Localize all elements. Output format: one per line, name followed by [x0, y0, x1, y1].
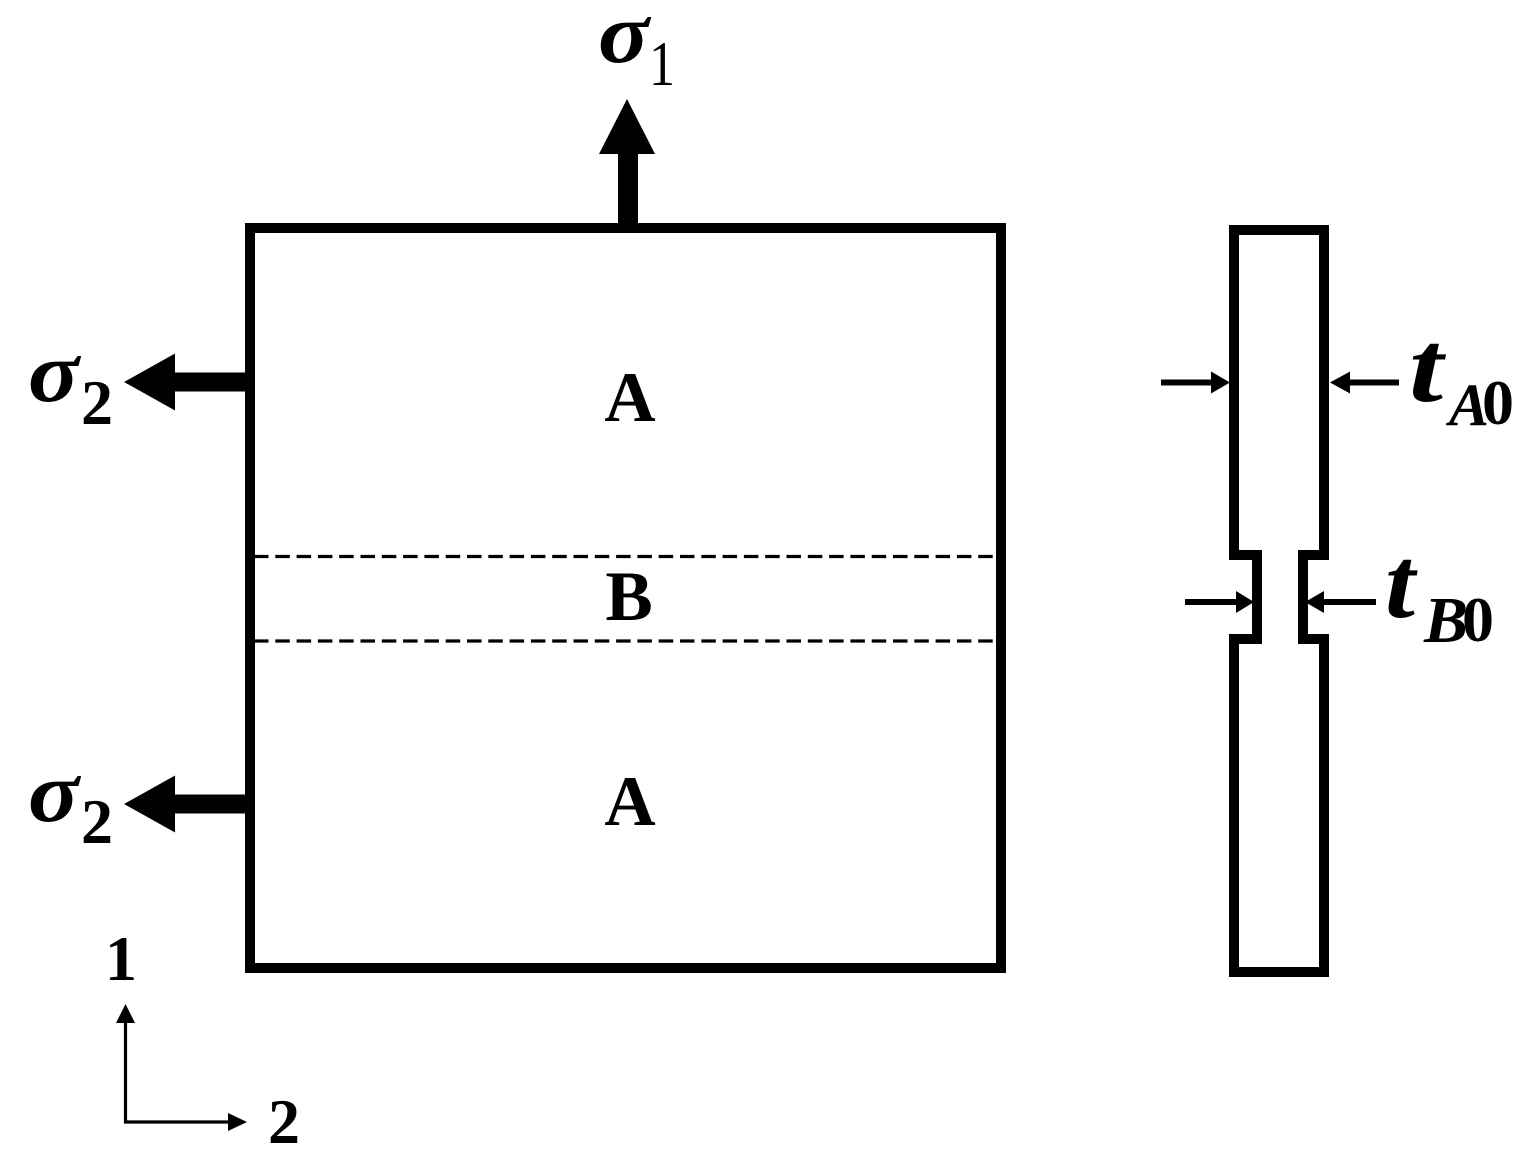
dashed interface line lower — [254, 639, 1001, 642]
svg-text:t: t — [1409, 311, 1446, 424]
svg-text:0: 0 — [1482, 367, 1514, 438]
laminate square outline — [250, 228, 1001, 968]
svg-text:A: A — [604, 359, 655, 437]
svg-text:2: 2 — [268, 1086, 300, 1157]
svg-text:t: t — [1385, 527, 1418, 640]
sigma2 label upper — [28, 324, 113, 438]
tA0 arrow left — [1161, 372, 1230, 394]
sigma2 label lower — [28, 744, 113, 857]
tB0 arrow right — [1305, 591, 1376, 613]
tB0 label — [1385, 527, 1494, 657]
sigma1 arrow — [599, 99, 655, 227]
tB0 arrow left — [1185, 591, 1254, 613]
axis 1 arrowhead — [116, 1004, 135, 1023]
sigma2 arrow upper — [124, 354, 249, 411]
tA0 label — [1409, 311, 1514, 438]
svg-text:B: B — [605, 558, 652, 636]
svg-text:σ: σ — [28, 324, 82, 420]
svg-text:1: 1 — [105, 923, 137, 994]
axis lines — [126, 1023, 229, 1122]
dashed interface line upper — [254, 555, 1001, 558]
svg-text:A: A — [604, 763, 655, 841]
svg-text:σ: σ — [28, 744, 82, 840]
svg-text:0: 0 — [1462, 584, 1494, 655]
specimen side profile outline — [1234, 230, 1324, 972]
tA0 arrow right — [1330, 372, 1399, 394]
svg-text:2: 2 — [81, 786, 113, 857]
axis 2 arrowhead — [228, 1113, 247, 1131]
svg-text:2: 2 — [81, 367, 113, 438]
sigma1 label — [598, 0, 675, 99]
sigma2 arrow lower — [124, 776, 249, 833]
svg-text:σ: σ — [598, 0, 652, 81]
svg-text:1: 1 — [649, 28, 675, 99]
